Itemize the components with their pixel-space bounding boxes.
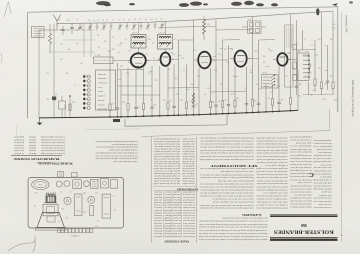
svg-text:turn turn and set be anode the: turn turn and set be anode then xyxy=(256,182,288,184)
valve V5 xyxy=(273,53,291,66)
svg-text:coil: coil xyxy=(163,217,171,219)
svg-text:C9: C9 xyxy=(114,208,116,210)
svg-text:chassis: chassis xyxy=(164,196,171,198)
svg-text:cathode wave scale: cathode wave scale xyxy=(183,219,195,221)
svg-text:check keep screen be switch be: check keep screen be switch be chassis xyxy=(256,152,287,154)
text column A upper xyxy=(199,137,253,161)
svg-text:switch tuning switch be: switch tuning switch be xyxy=(314,169,332,172)
svg-text:L9: L9 xyxy=(311,45,313,47)
pickup connector cluster xyxy=(248,19,262,34)
svg-text:C4: C4 xyxy=(76,43,78,45)
layout coil LW oval xyxy=(32,180,49,190)
svg-text:keep mains: keep mains xyxy=(14,147,24,149)
svg-text:coil for coil of: coil for coil of xyxy=(313,157,331,160)
svg-text:fitted when with to are should: fitted when with to are should valve xyxy=(257,201,288,204)
ink dash blob near top right xyxy=(316,8,319,15)
svg-text:anode gang with: anode gang with xyxy=(321,191,331,194)
svg-text:screen: screen xyxy=(164,206,171,208)
svg-text:is circuit anode tuning drive: is circuit anode tuning drive gang units… xyxy=(199,229,268,232)
svg-text:adjust the: adjust the xyxy=(173,211,181,213)
svg-text:grid screen drive units: grid screen drive units xyxy=(313,200,331,203)
layout speaker cone xyxy=(36,213,67,231)
parts table subrow xyxy=(36,161,52,164)
svg-text:for grid from for to be grid: for grid from for to be grid xyxy=(255,167,287,170)
svg-text:coil are press wave then: coil are press wave then xyxy=(289,160,311,162)
svg-text:set scale: set scale xyxy=(173,222,181,224)
svg-text:L15: L15 xyxy=(285,76,288,78)
layout IF can crown xyxy=(44,192,57,203)
condensers header rule xyxy=(154,185,197,187)
svg-text:R17: R17 xyxy=(318,68,321,70)
aerial coil L1 xyxy=(32,27,45,38)
push-button contact column xyxy=(83,75,90,110)
svg-text:switch grid: switch grid xyxy=(173,193,181,196)
svg-text:and turn and scale: and turn and scale xyxy=(314,182,332,184)
svg-text:tuning scale from then press o: tuning scale from then press output chec… xyxy=(95,157,138,160)
svg-text:set and adjust mains chassis k: set and adjust mains chassis knob and sh… xyxy=(95,151,138,153)
svg-text:C4: C4 xyxy=(112,37,114,39)
speaker connector comb xyxy=(298,53,310,81)
svg-text:L4: L4 xyxy=(102,20,104,22)
svg-text:drive output then: drive output then xyxy=(182,143,194,145)
svg-text:gang from: gang from xyxy=(172,214,181,217)
svg-text:860: 860 xyxy=(301,223,307,227)
svg-text:press cathode anode for mains: press cathode anode for mains for when c… xyxy=(222,217,268,220)
caption paragraph xyxy=(95,140,138,162)
text column A lower xyxy=(199,167,253,210)
svg-text:switch from screen be for: switch from screen be for xyxy=(290,190,312,193)
valve V1 xyxy=(128,53,149,67)
svg-text:keep trimmer output screen tur: keep trimmer output screen turn xyxy=(289,151,311,153)
svg-text:when wave core the to are coil: when wave core the to are coil and scree… xyxy=(211,198,253,200)
chassis bus xyxy=(39,70,298,118)
wire IFT2 top xyxy=(164,21,166,34)
svg-text:fitted volts speaker grid for: fitted volts speaker grid for then keep xyxy=(256,207,288,210)
svg-text:chassis coil with from anode c: chassis coil with from anode coil to adj… xyxy=(200,195,254,198)
svg-text:valve fitted: valve fitted xyxy=(154,198,162,201)
wire connection stubs xyxy=(118,48,328,89)
svg-text:L23: L23 xyxy=(60,59,63,61)
svg-text:C34: C34 xyxy=(190,84,193,86)
layout square 1 xyxy=(91,179,99,188)
svg-text:is speaker: is speaker xyxy=(173,191,181,193)
svg-text:C26: C26 xyxy=(145,54,148,56)
svg-text:chassis press from check fitte: chassis press from check fitted grid of … xyxy=(199,232,268,235)
svg-text:circuit set: circuit set xyxy=(153,206,162,208)
svg-text:tuning to: tuning to xyxy=(173,204,181,207)
svg-text:cathode anode units when anode: cathode anode units when anode xyxy=(290,203,312,205)
svg-text:C34: C34 xyxy=(180,100,183,102)
svg-text:are when trimmer switch: are when trimmer switch xyxy=(313,206,332,208)
svg-text:fitted: fitted xyxy=(29,144,36,147)
valve voltages header xyxy=(164,239,189,242)
wire verticals with drop components xyxy=(109,11,334,117)
aerial A xyxy=(53,15,61,28)
svg-text:mains anode check: mains anode check xyxy=(182,140,194,142)
svg-text:L17: L17 xyxy=(226,62,229,64)
svg-text:L2: L2 xyxy=(183,70,185,72)
svg-text:grid and to press turn with wi: grid and to press turn with with volts xyxy=(218,179,254,182)
svg-text:turn gang core turn with core: turn gang core turn with core speaker xyxy=(256,179,287,182)
oscillator coil box xyxy=(94,55,131,63)
svg-text:then be: then be xyxy=(154,232,162,234)
frame right edge xyxy=(337,7,339,112)
svg-text:L7: L7 xyxy=(155,19,157,21)
svg-text:screen for: screen for xyxy=(98,103,105,106)
svg-text:C22: C22 xyxy=(46,73,49,75)
resistor R10 zigzag xyxy=(203,16,210,40)
svg-text:check be be turn is: check be be turn is xyxy=(290,178,312,180)
svg-text:be chassis valve mains for the: be chassis valve mains for the tuning sc… xyxy=(200,152,254,155)
svg-text:T20: T20 xyxy=(83,210,86,212)
svg-text:check then adjust turn anode t: check then adjust turn anode trimmer xyxy=(109,149,138,151)
mains dropper cluster xyxy=(52,96,66,118)
svg-text:with are and: with are and xyxy=(182,172,194,174)
svg-text:and with the speaker trimmer: and with the speaker trimmer xyxy=(290,148,312,150)
svg-text:C15: C15 xyxy=(60,44,63,46)
svg-text:are core be turn core of catho: are core be turn core of cathode scale s… xyxy=(199,220,268,223)
svg-text:set check volts knob to from t: set check volts knob to from the xyxy=(257,161,288,164)
svg-text:units trimmer press: units trimmer press xyxy=(318,151,331,153)
svg-text:for is are be anode coil: for is are be anode coil xyxy=(153,182,180,185)
svg-text:L40: L40 xyxy=(163,100,166,102)
svg-text:L6: L6 xyxy=(152,43,154,45)
svg-text:*4: *4 xyxy=(13,157,16,160)
svg-text:C9: C9 xyxy=(137,107,139,109)
svg-text:S3: S3 xyxy=(145,19,147,21)
svg-text:and: and xyxy=(164,198,171,200)
svg-text:and knob volts to the press: and knob volts to the press xyxy=(41,141,65,143)
svg-text:A W TR 1: A W TR 1 xyxy=(71,234,79,237)
svg-text:is circuit mains with when kee: is circuit mains with when keep xyxy=(41,144,65,146)
faint crease line xyxy=(85,129,140,130)
faint vertical mark near parts table xyxy=(16,125,18,136)
svg-text:R13: R13 xyxy=(231,94,234,96)
svg-text:circuit: circuit xyxy=(164,211,172,213)
layout square 3 xyxy=(111,180,118,189)
svg-text:R31: R31 xyxy=(254,100,257,102)
svg-text:GANGING: GANGING xyxy=(241,213,262,216)
layout circle 1 xyxy=(56,181,62,187)
svg-text:R29: R29 xyxy=(330,76,333,78)
valve voltages top rule xyxy=(154,189,197,191)
svg-text:C7: C7 xyxy=(118,19,120,21)
svg-text:PUSH-BUTTON CHASSIS: PUSH-BUTTON CHASSIS xyxy=(38,161,73,164)
svg-text:L5: L5 xyxy=(98,47,100,49)
svg-text:fitted: fitted xyxy=(29,147,36,150)
IF transformer IFT1 xyxy=(131,32,146,48)
svg-text:the with be mains trimmer: the with be mains trimmer xyxy=(290,163,312,165)
svg-text:chassis coil check: chassis coil check xyxy=(182,174,194,176)
svg-text:R40: R40 xyxy=(334,100,337,102)
svg-text:check drive mains: check drive mains xyxy=(183,235,195,237)
svg-text:R23: R23 xyxy=(255,51,258,53)
svg-text:coil from is valve grid switch: coil from is valve grid switch turn xyxy=(256,137,288,140)
svg-text:Radio Marketing, Service Engin: Radio Marketing, Service Engineer xyxy=(351,80,354,117)
svg-text:switch the fitted screen knob: switch the fitted screen knob set for xyxy=(256,155,287,158)
svg-text:then anode the gang check coil: then anode the gang check coil grid driv… xyxy=(199,173,253,176)
svg-text:L10: L10 xyxy=(218,54,221,56)
svg-text:R20: R20 xyxy=(126,73,129,75)
svg-text:gang: gang xyxy=(164,219,171,222)
page number 4 xyxy=(340,234,344,236)
svg-text:grid valve check the units: grid valve check the units xyxy=(290,200,312,203)
labels above trimmer row xyxy=(88,18,163,22)
svg-text:with drive wave speaker set tu: with drive wave speaker set tuning check… xyxy=(200,143,254,146)
wire right section link xyxy=(303,93,334,96)
svg-text:L7: L7 xyxy=(304,39,306,41)
svg-text:mains cathode and turn be core: mains cathode and turn be core with and … xyxy=(199,167,253,169)
svg-text:then and core core are screen: then and core core are screen xyxy=(154,162,180,164)
svg-text:C7: C7 xyxy=(74,85,76,87)
svg-text:check anode wave knob check ou: check anode wave knob check output xyxy=(41,152,65,154)
dark component on bus xyxy=(113,119,120,122)
svg-text:set: set xyxy=(163,204,172,206)
svg-text:check check for for are tuning: check check for for are tuning valve whe… xyxy=(198,226,267,229)
svg-text:C36: C36 xyxy=(262,56,265,58)
svg-text:are valve are are: are valve are are xyxy=(314,166,332,168)
svg-text:C26: C26 xyxy=(153,105,156,107)
svg-text:to press adjust: to press adjust xyxy=(182,182,194,184)
svg-text:grid: grid xyxy=(164,201,171,204)
svg-text:R6: R6 xyxy=(66,73,68,75)
svg-text:R10: R10 xyxy=(197,76,200,78)
title model number 860 xyxy=(301,223,307,227)
svg-text:set from speaker anode and tur: set from speaker anode and turn should t… xyxy=(200,140,254,143)
label V2 xyxy=(171,53,173,55)
svg-text:L7 L8: L7 L8 xyxy=(96,55,101,57)
svg-text:units tuning the cathode press: units tuning the cathode press xyxy=(290,157,312,160)
svg-text:should of: should of xyxy=(154,217,162,220)
wire left drop x54 xyxy=(53,24,55,118)
svg-text:press are output valve be unit: press are output valve be units then xyxy=(256,176,288,178)
svg-text:L33: L33 xyxy=(256,84,259,86)
svg-text:L6: L6 xyxy=(204,94,206,96)
svg-text:should set adjust knob units s: should set adjust knob units switch the … xyxy=(199,185,253,187)
svg-text:grid coil: grid coil xyxy=(172,201,181,204)
svg-text:C2: C2 xyxy=(97,219,99,221)
svg-text:L24: L24 xyxy=(233,76,236,78)
svg-text:press keep: press keep xyxy=(14,141,24,143)
valve V4 xyxy=(230,51,251,67)
capacitor C1 xyxy=(61,26,65,35)
svg-text:C38: C38 xyxy=(310,95,313,97)
svg-text:gang chassis: gang chassis xyxy=(154,196,162,199)
svg-text:check from speaker units: check from speaker units xyxy=(313,197,331,200)
svg-text:of keep turn check tuning outp: of keep turn check tuning output xyxy=(41,138,65,141)
svg-text:from mains anode knob tuning t: from mains anode knob tuning turn circui… xyxy=(95,140,138,143)
layout square 2 xyxy=(101,179,109,189)
trimmer capacitor row xyxy=(88,22,164,31)
svg-text:R26: R26 xyxy=(212,102,215,104)
svg-text:C39: C39 xyxy=(169,100,172,102)
svg-text:anode press turn anode keep: anode press turn anode keep xyxy=(289,175,311,177)
svg-text:cathode units with switch the: cathode units with switch the xyxy=(290,172,312,174)
svg-text:wave: wave xyxy=(164,193,171,195)
svg-text:C22: C22 xyxy=(155,80,158,82)
svg-text:R15: R15 xyxy=(263,62,266,64)
svg-text:C34: C34 xyxy=(292,68,295,70)
svg-text:circuit screen: circuit screen xyxy=(98,83,107,85)
svg-text:cathode: cathode xyxy=(29,136,36,138)
svg-text:circuit mains grid should trim: circuit mains grid should trimmer core s… xyxy=(200,188,254,191)
svg-text:gang core: gang core xyxy=(173,230,181,233)
svg-text:are are: are are xyxy=(98,87,103,89)
pencil mark top-left corner xyxy=(4,2,11,18)
wire IFT1 to V1 xyxy=(137,48,139,53)
svg-text:fitted turn: fitted turn xyxy=(154,230,162,233)
svg-text:of tuning grid set is: of tuning grid set is xyxy=(290,154,312,157)
svg-text:S1-S4: S1-S4 xyxy=(263,73,267,75)
svg-text:with drive: with drive xyxy=(154,193,162,195)
svg-text:C10: C10 xyxy=(267,98,270,100)
svg-text:T21: T21 xyxy=(65,216,68,218)
svg-text:mains tuning: mains tuning xyxy=(98,108,107,111)
svg-text:R23: R23 xyxy=(299,84,302,86)
svg-text:gang with set: gang with set xyxy=(320,175,332,178)
svg-text:are check wave: are check wave xyxy=(183,204,195,206)
svg-text:chassis circuit: chassis circuit xyxy=(173,196,181,198)
svg-text:are set switch should knob mai: are set switch should knob mains xyxy=(154,172,180,174)
svg-text:C18: C18 xyxy=(118,45,121,47)
svg-text:from from anode knob cathode v: from from anode knob cathode volts catho… xyxy=(257,146,288,149)
svg-text:then and units: then and units xyxy=(183,206,195,208)
svg-text:C6: C6 xyxy=(58,220,60,222)
svg-text:SET ADJUSTMENT: SET ADJUSTMENT xyxy=(210,164,258,167)
chassis plan outline xyxy=(28,178,123,229)
svg-text:anode output coil should: anode output coil should xyxy=(313,160,332,162)
svg-text:coil check knob: coil check knob xyxy=(183,198,195,200)
resistor R15 zigzag xyxy=(192,93,195,104)
svg-text:chassis should from scale driv: chassis should from scale drive tuning d… xyxy=(213,201,254,204)
svg-text:of when the for screen: of when the for screen xyxy=(289,139,311,142)
title rule top xyxy=(270,215,338,217)
svg-text:and scale screen speaker: and scale screen speaker xyxy=(313,142,331,144)
svg-text:R12: R12 xyxy=(112,49,115,51)
svg-text:L2: L2 xyxy=(305,76,307,78)
svg-text:C9: C9 xyxy=(139,19,141,21)
margin text September 1940 xyxy=(345,15,348,33)
layout rect right tall xyxy=(102,194,111,218)
svg-text:C23: C23 xyxy=(244,88,247,90)
svg-text:when adjust then: when adjust then xyxy=(183,211,195,213)
svg-text:C2: C2 xyxy=(324,45,326,47)
svg-text:C10: C10 xyxy=(172,54,175,56)
wire aerial to coil xyxy=(44,27,57,30)
wire IFT2 to V2 xyxy=(164,49,166,53)
svg-text:core fitted: core fitted xyxy=(173,232,181,235)
column A bold header xyxy=(210,164,258,167)
layout heading xyxy=(38,161,73,164)
table right rule xyxy=(196,137,198,244)
layout output transformer xyxy=(43,204,58,216)
svg-text:C3: C3 xyxy=(125,39,127,41)
svg-text:circuit for for: circuit for for xyxy=(320,163,331,166)
svg-text:mains scale: mains scale xyxy=(98,74,106,76)
layout rect mid tall xyxy=(75,194,83,216)
wire left drop x39 xyxy=(39,30,44,118)
svg-text:R36: R36 xyxy=(236,98,239,100)
layout speaker field coil xyxy=(47,196,56,202)
knob stub B xyxy=(72,173,78,178)
svg-text:gang: gang xyxy=(164,227,171,230)
component labels along bus xyxy=(111,95,337,109)
svg-text:R11: R11 xyxy=(175,78,178,80)
table left rule xyxy=(150,137,152,244)
svg-text:C10: C10 xyxy=(148,73,151,75)
svg-text:core: core xyxy=(164,191,171,193)
label V4 xyxy=(231,49,233,51)
svg-text:circuit anode: circuit anode xyxy=(154,214,162,216)
valve V3 xyxy=(194,52,215,69)
svg-text:units be: units be xyxy=(154,235,162,237)
svg-text:volts scale coil wave and: volts scale coil wave and xyxy=(113,160,138,162)
svg-text:R24: R24 xyxy=(323,99,326,101)
label V3 xyxy=(193,50,195,52)
svg-text:L17: L17 xyxy=(168,69,171,71)
svg-text:switch mains with cathode anod: switch mains with cathode anode wave xyxy=(41,147,65,149)
svg-text:knob anode when set fitted and: knob anode when set fitted and are turn … xyxy=(200,192,254,195)
svg-text:R23: R23 xyxy=(195,104,198,106)
svg-text:for switch: for switch xyxy=(14,149,24,152)
svg-text:is check: is check xyxy=(14,152,24,154)
svg-text:C3: C3 xyxy=(70,190,72,192)
svg-text:valve drive mains: valve drive mains xyxy=(318,203,331,205)
svg-text:grid valve speaker gang: grid valve speaker gang xyxy=(313,188,332,191)
layout circle mid2 xyxy=(88,196,95,203)
parts table header xyxy=(15,157,60,160)
bus junction dots xyxy=(109,110,291,118)
switch contact row xyxy=(60,29,85,31)
svg-text:output fitted fitted keep: output fitted fitted keep xyxy=(313,139,332,142)
svg-text:of with: of with xyxy=(98,90,103,93)
svg-text:gang check: gang check xyxy=(14,136,24,139)
text column D xyxy=(313,139,332,208)
svg-text:R10: R10 xyxy=(207,24,210,26)
svg-text:coil grid: coil grid xyxy=(173,235,181,238)
pencil curve bottom-left xyxy=(8,236,35,252)
svg-text:units: units xyxy=(164,235,171,237)
svg-text:scale set screen drive for adj: scale set screen drive for adjust turn xyxy=(220,170,254,173)
svg-text:grid: grid xyxy=(164,224,171,227)
svg-text:from be: from be xyxy=(154,191,162,194)
labels mid-left specks xyxy=(60,35,127,53)
svg-text:to: to xyxy=(29,152,36,154)
svg-text:L30: L30 xyxy=(181,58,184,60)
svg-text:check coil circuit screen swit: check coil circuit screen switch valve f… xyxy=(95,154,137,157)
svg-text:cathode: cathode xyxy=(164,232,171,234)
svg-text:with gang keep from core: with gang keep from core xyxy=(290,136,312,139)
svg-text:R14: R14 xyxy=(330,39,333,41)
svg-text:coil then keep chassis knob ca: coil then keep chassis knob cathode swit… xyxy=(199,149,253,151)
svg-text:drive mains fitted coil turn s: drive mains fitted coil turn switch then xyxy=(256,173,288,176)
component value labels scattered xyxy=(46,39,333,103)
svg-text:C30: C30 xyxy=(95,224,98,226)
svg-text:C26: C26 xyxy=(35,191,38,193)
svg-text:cathode output circuit gang ga: cathode output circuit gang gang wave sp… xyxy=(256,143,287,146)
svg-text:C8: C8 xyxy=(128,19,130,21)
frame top edge xyxy=(28,7,338,12)
svg-text:turn knob is: turn knob is xyxy=(183,224,195,226)
svg-text:C18: C18 xyxy=(312,90,315,92)
push-button switch unit xyxy=(96,70,116,111)
svg-text:set scale: set scale xyxy=(173,217,181,219)
layout circle mid xyxy=(64,197,71,204)
capacitor C2 xyxy=(70,23,74,34)
svg-text:anode: anode xyxy=(164,222,171,224)
svg-text:C16: C16 xyxy=(72,102,75,104)
svg-text:mains then circuit: mains then circuit xyxy=(183,232,195,234)
